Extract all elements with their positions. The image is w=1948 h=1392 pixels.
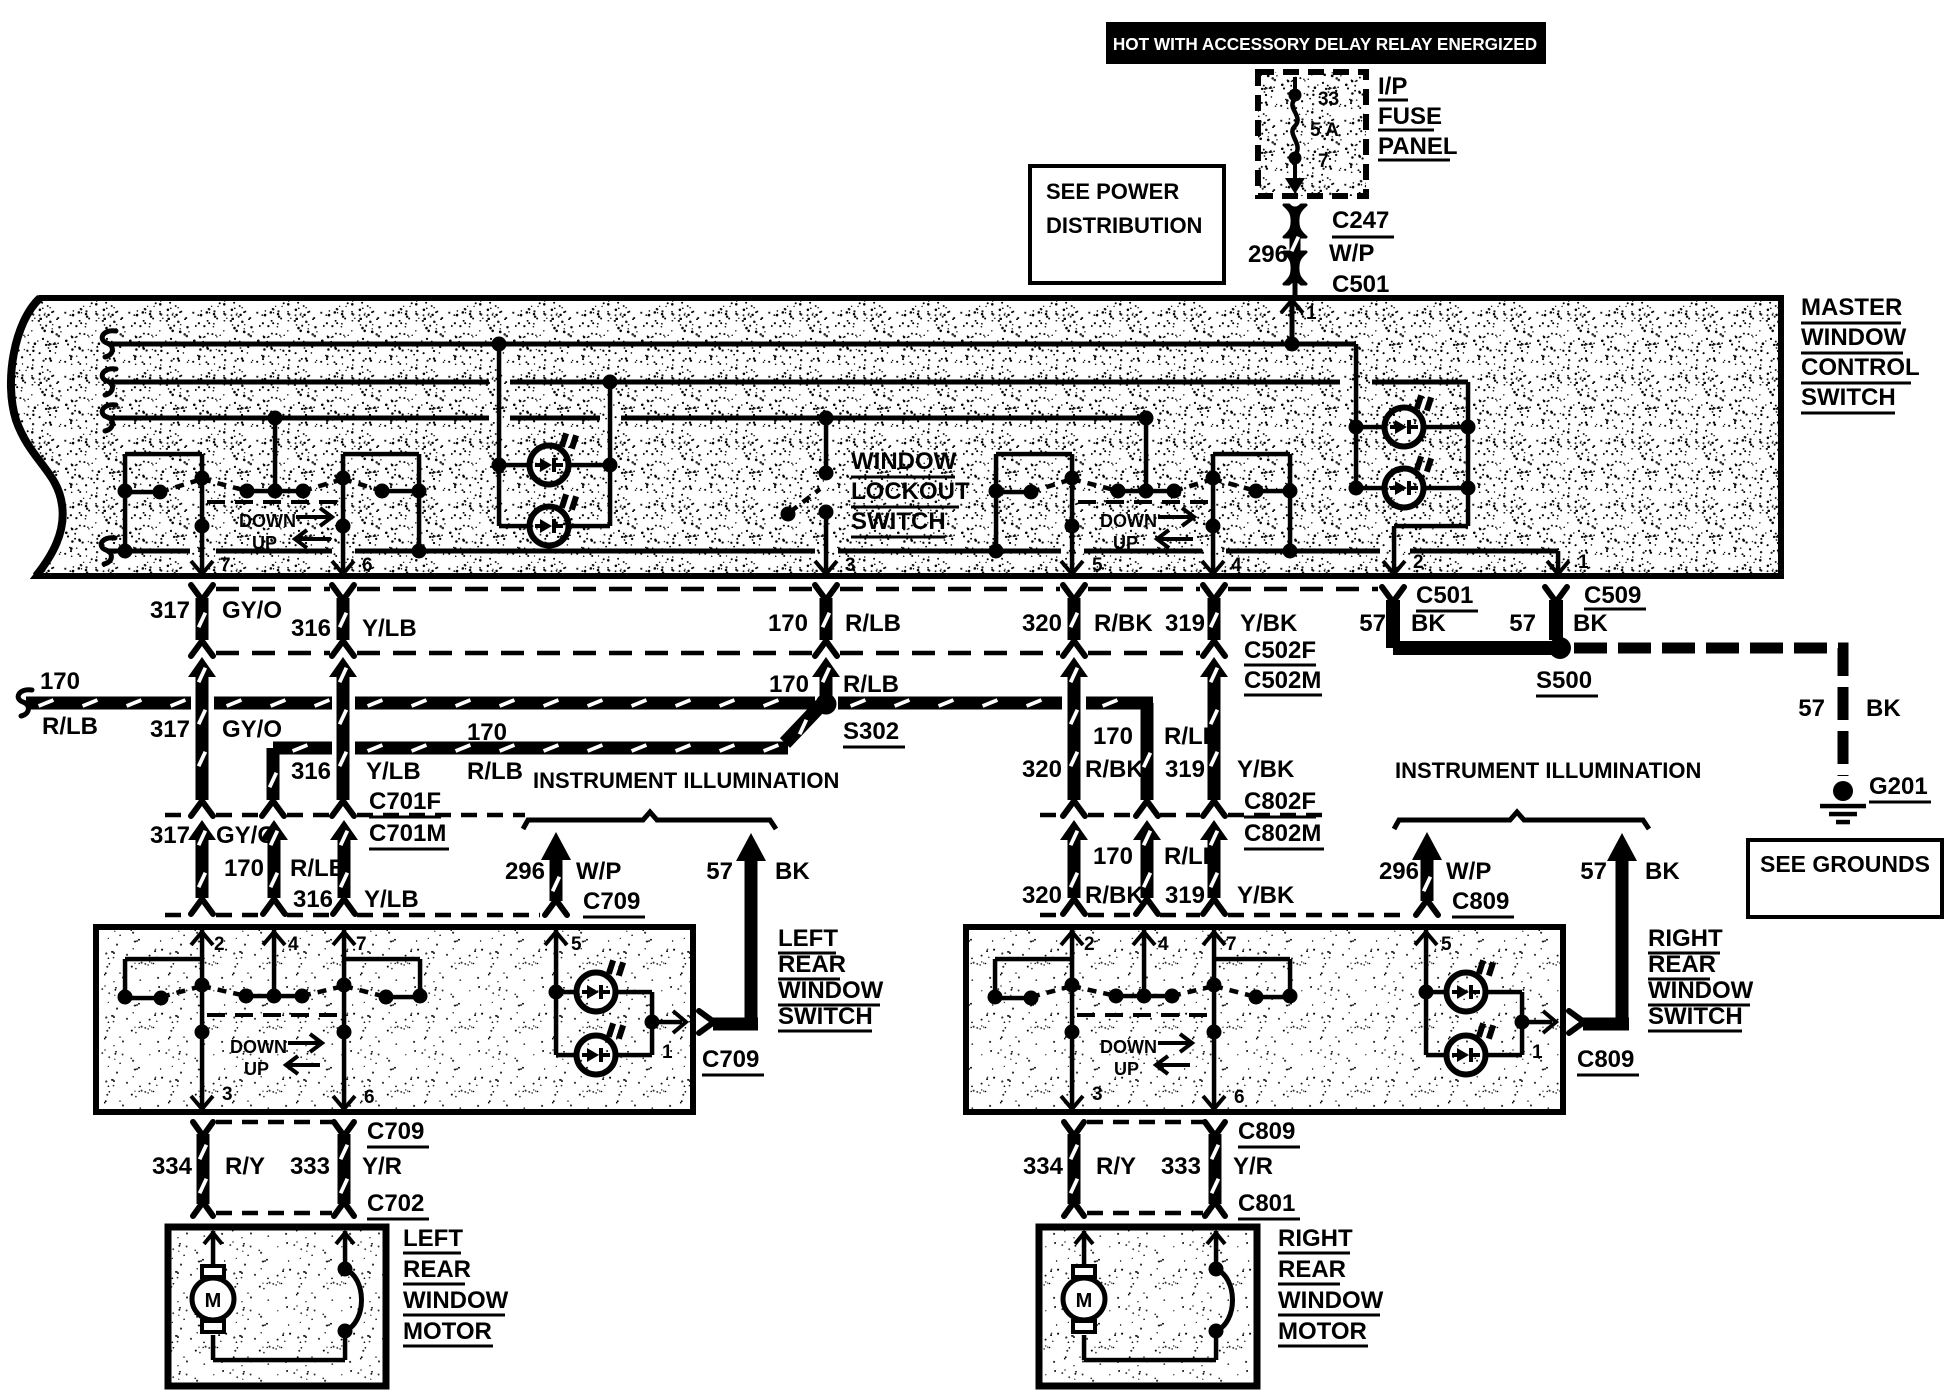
svg-text:BK: BK	[1866, 695, 1901, 722]
I/P fuse panel box	[1258, 72, 1366, 196]
left switch center contact bar	[246, 994, 302, 999]
svg-text:57: 57	[1798, 695, 1825, 722]
svg-text:320: 320	[1022, 882, 1062, 909]
left motor M	[202, 1266, 224, 1277]
svg-text:6: 6	[364, 1087, 375, 1108]
wire 319 Y/BK band1 to C802	[1200, 657, 1228, 677]
svg-text:4: 4	[1158, 934, 1169, 955]
left motor left lead	[211, 1231, 216, 1268]
svg-text:DOWN: DOWN	[239, 511, 296, 531]
left switch contact frame A	[125, 957, 202, 962]
svg-text:R/LB: R/LB	[467, 758, 523, 785]
master right-rear rocker switch contact frame B	[1213, 452, 1290, 457]
left motor bottom wire	[211, 1335, 216, 1360]
right motor M	[1073, 1266, 1095, 1277]
master left-rear rocker switch contact frame A	[125, 452, 202, 457]
ground arrow 57 BK right	[1607, 833, 1637, 861]
left switch pin 1 exit wire	[652, 1020, 682, 1025]
svg-text:FUSE: FUSE	[1378, 103, 1442, 130]
svg-text:UP: UP	[252, 533, 277, 553]
svg-text:W/P: W/P	[1329, 240, 1374, 267]
master left-rear rocker switch pin 6 wire	[341, 454, 346, 574]
svg-text:DOWN: DOWN	[1100, 1037, 1157, 1057]
svg-text:REAR: REAR	[778, 951, 846, 978]
connector C701F/C701M dashed line	[165, 813, 190, 818]
bus wire B+ (top bus)	[102, 331, 116, 357]
svg-text:5: 5	[1441, 934, 1452, 955]
right switch pin 5 lamp wire	[1424, 930, 1429, 1055]
svg-text:C709: C709	[583, 888, 640, 915]
svg-text:7: 7	[220, 555, 231, 576]
svg-text:C809: C809	[1577, 1046, 1634, 1073]
svg-text:317: 317	[150, 597, 190, 624]
right switch contact frame B	[1214, 957, 1290, 962]
svg-text:1: 1	[662, 1042, 673, 1063]
wire 170 R/LB C802 to C809	[1133, 820, 1161, 840]
wire 170 R/LB corner down to C802	[1141, 703, 1154, 800]
svg-text:320: 320	[1022, 610, 1062, 637]
fuse 33 5A 7 inside fuse panel	[1293, 77, 1297, 94]
wire 319 Y/BK through C501	[1203, 585, 1225, 600]
svg-text:320: 320	[1022, 756, 1062, 783]
svg-text:UP: UP	[1114, 1059, 1139, 1079]
bus wire ground (bottom)	[101, 538, 115, 564]
svg-text:57: 57	[1359, 610, 1386, 637]
svg-text:170: 170	[40, 668, 80, 695]
svg-text:57: 57	[1580, 858, 1607, 885]
svg-text:170: 170	[224, 855, 264, 882]
svg-text:DISTRIBUTION: DISTRIBUTION	[1046, 213, 1202, 238]
svg-text:C709: C709	[367, 1118, 424, 1145]
svg-text:3: 3	[1092, 1084, 1103, 1105]
right switch pin 6 wire	[1212, 985, 1217, 1109]
svg-text:1: 1	[1532, 1042, 1543, 1063]
svg-text:WINDOW: WINDOW	[851, 448, 957, 475]
instrument illumination brace right	[1394, 812, 1649, 829]
svg-text:Y/LB: Y/LB	[362, 615, 417, 642]
ground arrow 57 BK left	[736, 833, 766, 861]
svg-text:RIGHT: RIGHT	[1278, 1225, 1353, 1252]
svg-text:MASTER: MASTER	[1801, 294, 1902, 321]
svg-text:GY/O: GY/O	[222, 597, 282, 624]
wire 320 R/BK band1 to C802	[1060, 657, 1088, 677]
svg-text:UP: UP	[244, 1059, 269, 1079]
svg-text:2: 2	[1084, 934, 1095, 955]
wire 320 R/BK through C501	[1063, 585, 1085, 600]
svg-text:DOWN: DOWN	[1100, 511, 1157, 531]
master left-rear rocker blade (dashed)	[160, 479, 202, 492]
right switch pin 1 exit wire	[1522, 1020, 1552, 1025]
svg-text:170: 170	[768, 610, 808, 637]
left switch pin 7 wire	[342, 930, 347, 985]
instrument illumination arrow 296 W/P left	[541, 832, 571, 860]
svg-text:33: 33	[1318, 89, 1339, 110]
connector C802F/C802M dashed line	[1040, 813, 1062, 818]
svg-text:170: 170	[769, 671, 809, 698]
svg-text:BK: BK	[1645, 858, 1680, 885]
ground G201	[1833, 781, 1853, 801]
svg-text:2: 2	[214, 934, 225, 955]
left switch pin 5 lamp wire	[554, 930, 559, 1055]
svg-text:334: 334	[1023, 1153, 1064, 1180]
svg-text:HOT WITH ACCESSORY DELAY RELAY: HOT WITH ACCESSORY DELAY RELAY ENERGIZED	[1113, 34, 1537, 54]
right rear window motor box	[1039, 1227, 1257, 1386]
svg-text:317: 317	[150, 716, 190, 743]
splice S302	[816, 694, 837, 715]
svg-text:5: 5	[571, 934, 582, 955]
right switch pin 4 wire	[1142, 930, 1147, 996]
svg-text:BK: BK	[1411, 610, 1446, 637]
master left-rear rocker center contact bar	[273, 418, 278, 491]
right switch travel line	[1077, 1013, 1208, 1017]
master window control switch box	[11, 298, 1781, 576]
right switch rocker blade	[1065, 978, 1080, 993]
left switch rocker blade	[195, 978, 210, 993]
svg-text:I/P: I/P	[1378, 73, 1407, 100]
wire 317 GY/O C701 to C709	[188, 820, 216, 840]
svg-text:C509: C509	[1584, 582, 1641, 609]
svg-text:W/P: W/P	[576, 858, 621, 885]
svg-text:BK: BK	[775, 858, 810, 885]
svg-text:Y/BK: Y/BK	[1240, 610, 1298, 637]
pin 1 feed wire from C501	[1290, 300, 1295, 344]
svg-text:C709: C709	[702, 1046, 759, 1073]
svg-text:317: 317	[150, 822, 190, 849]
svg-text:R/LB: R/LB	[845, 610, 901, 637]
svg-text:Y/BK: Y/BK	[1237, 756, 1295, 783]
bus wire 3rd (switch feed)	[102, 405, 116, 431]
window lockout switch	[824, 418, 829, 473]
connector C709 dashed line	[165, 913, 190, 918]
svg-text:SEE GROUNDS: SEE GROUNDS	[1760, 851, 1930, 877]
right switch pin 2 wire	[1070, 930, 1075, 985]
svg-text:7: 7	[1318, 151, 1329, 172]
right motor circuit breaker	[1214, 1231, 1219, 1269]
svg-text:WINDOW: WINDOW	[1648, 977, 1754, 1004]
57 BK dashed wire to ground	[1574, 648, 1843, 776]
svg-text:296: 296	[505, 858, 545, 885]
master left-rear rocker switch pin 7 wire	[200, 454, 205, 574]
svg-text:Y/BK: Y/BK	[1237, 882, 1295, 909]
svg-text:296: 296	[1379, 858, 1419, 885]
left switch pin 4 wire	[272, 930, 277, 996]
connector C247	[1284, 205, 1306, 220]
left rear window motor box	[168, 1227, 386, 1386]
right switch pin 7 wire	[1212, 930, 1217, 985]
svg-text:334: 334	[152, 1153, 193, 1180]
svg-text:W/P: W/P	[1446, 858, 1491, 885]
wire 170 R/LB through C501	[815, 585, 837, 600]
svg-text:R/Y: R/Y	[1096, 1153, 1136, 1180]
svg-text:SWITCH: SWITCH	[778, 1003, 873, 1030]
wire 170 R/LB C701 to C709	[260, 820, 288, 840]
master right-rear rocker blade (dashed)	[1031, 479, 1072, 492]
wire 320 R/BK C802 to C809	[1060, 820, 1088, 840]
wire 317 GY/O through C501	[191, 585, 213, 600]
svg-text:3: 3	[222, 1084, 233, 1105]
left switch travel line	[207, 1013, 338, 1017]
wire 316 Y/LB band1 to C701	[329, 657, 357, 677]
svg-text:WINDOW: WINDOW	[1801, 324, 1907, 351]
left switch contact frame B	[344, 957, 420, 962]
svg-text:319: 319	[1165, 882, 1205, 909]
svg-text:3: 3	[845, 555, 856, 576]
svg-text:C701F: C701F	[369, 788, 441, 815]
svg-text:57: 57	[1509, 610, 1536, 637]
hot-with-accessory-delay-relay-energized banner	[1106, 22, 1546, 64]
right switch pin 3 wire	[1070, 985, 1075, 1109]
svg-text:170: 170	[1093, 723, 1133, 750]
svg-text:57: 57	[706, 858, 733, 885]
svg-text:SWITCH: SWITCH	[1801, 384, 1896, 411]
connector C809 dashed line	[1040, 913, 1062, 918]
svg-text:C502F: C502F	[1244, 637, 1316, 664]
svg-text:Y/LB: Y/LB	[364, 886, 419, 913]
connector C501 chevron and 57 BK wire	[1382, 587, 1404, 602]
master switch pin 1 ground exit	[1556, 551, 1561, 574]
connector C809/C801 wires 334 R/Y, 333 Y/R	[1064, 1122, 1084, 1136]
master right-rear rocker switch contact frame A	[996, 452, 1072, 457]
svg-text:Y/R: Y/R	[362, 1153, 402, 1180]
svg-text:S302: S302	[843, 718, 899, 745]
svg-text:7: 7	[1226, 934, 1237, 955]
svg-text:C809: C809	[1452, 888, 1509, 915]
svg-text:333: 333	[290, 1153, 330, 1180]
master right-rear rocker center contact bar	[1144, 418, 1149, 491]
master right-rear rocker switch pin 4 wire	[1211, 454, 1216, 574]
svg-text:C701M: C701M	[369, 820, 446, 847]
connector C501 top	[1284, 252, 1306, 267]
svg-text:WINDOW: WINDOW	[778, 977, 884, 1004]
svg-text:319: 319	[1165, 610, 1205, 637]
svg-text:SWITCH: SWITCH	[1648, 1003, 1743, 1030]
right motor left lead	[1082, 1231, 1087, 1268]
wire 170 R/LB lockout to splice S302	[812, 657, 840, 677]
SEE GROUNDS box	[1748, 840, 1942, 917]
wire 316 Y/LB C701 to C709	[330, 820, 358, 840]
svg-text:316: 316	[291, 758, 331, 785]
master switch illumination lamps right pair	[1354, 344, 1359, 488]
svg-text:1: 1	[1578, 552, 1589, 573]
wire 319 Y/BK C802 to C809	[1200, 820, 1228, 840]
svg-text:C809: C809	[1238, 1118, 1295, 1145]
master right-rear rocker travel line	[1078, 500, 1208, 504]
svg-text:C802M: C802M	[1244, 820, 1321, 847]
svg-text:REAR: REAR	[1648, 951, 1716, 978]
wire 296 W/P fuse to master switch	[1290, 234, 1301, 254]
svg-text:R/BK: R/BK	[1085, 882, 1144, 909]
SEE POWER DISTRIBUTION box	[1030, 166, 1224, 283]
svg-text:319: 319	[1165, 756, 1205, 783]
svg-text:170: 170	[467, 719, 507, 746]
master left-rear rocker travel line	[207, 500, 340, 504]
svg-text:316: 316	[293, 886, 333, 913]
master switch pin 2 wire	[1394, 524, 1468, 529]
svg-text:6: 6	[362, 555, 373, 576]
wire 317 GY/O band1 to C701	[188, 657, 216, 677]
svg-text:SEE POWER: SEE POWER	[1046, 179, 1179, 204]
connector C509 chevron and 57 BK wire	[1545, 587, 1567, 602]
connector C709/C702 wires 334 R/Y, 333 Y/R	[193, 1122, 213, 1136]
svg-text:7: 7	[356, 934, 367, 955]
instrument illumination brace left	[523, 812, 776, 829]
splice S500	[1549, 637, 1571, 659]
svg-text:296: 296	[1248, 241, 1288, 268]
svg-text:REAR: REAR	[403, 1256, 471, 1283]
svg-text:M: M	[205, 1290, 222, 1312]
master switch illumination lamps left pair	[497, 344, 502, 526]
svg-text:M: M	[1076, 1290, 1093, 1312]
svg-text:C802F: C802F	[1244, 788, 1316, 815]
svg-text:LOCKOUT: LOCKOUT	[851, 478, 970, 505]
svg-text:R/LB: R/LB	[843, 671, 899, 698]
svg-text:INSTRUMENT ILLUMINATION: INSTRUMENT ILLUMINATION	[1395, 758, 1701, 783]
right switch contact frame A	[995, 957, 1072, 962]
svg-text:R/LB: R/LB	[42, 713, 98, 740]
svg-text:BK: BK	[1573, 610, 1608, 637]
bus wire 2nd	[102, 369, 116, 395]
svg-text:GY/O: GY/O	[222, 716, 282, 743]
left switch C709 exit chevron + 57 BK wire	[699, 1011, 714, 1033]
left switch pin 3 wire	[200, 985, 205, 1109]
left rear window switch box	[96, 927, 693, 1112]
right switch illumination lamps	[1426, 990, 1446, 995]
svg-text:WINDOW: WINDOW	[1278, 1287, 1384, 1314]
left motor circuit breaker	[343, 1231, 348, 1269]
svg-text:333: 333	[1161, 1153, 1201, 1180]
svg-text:5: 5	[1092, 555, 1103, 576]
svg-text:C501: C501	[1416, 582, 1473, 609]
left switch pin 2 wire	[200, 930, 205, 985]
svg-text:170: 170	[1093, 843, 1133, 870]
svg-text:MOTOR: MOTOR	[1278, 1318, 1367, 1345]
svg-text:4: 4	[1231, 555, 1242, 576]
right motor bottom wire	[1082, 1335, 1087, 1360]
wire 316 Y/LB through C501	[332, 585, 354, 600]
master left-rear rocker switch contact frame B	[343, 452, 419, 457]
svg-text:REAR: REAR	[1278, 1256, 1346, 1283]
svg-text:2: 2	[1413, 552, 1424, 573]
svg-text:R/BK: R/BK	[1085, 756, 1144, 783]
svg-text:C702: C702	[367, 1190, 424, 1217]
svg-text:PANEL: PANEL	[1378, 133, 1458, 160]
svg-text:UP: UP	[1113, 533, 1138, 553]
svg-text:4: 4	[288, 934, 299, 955]
svg-text:S500: S500	[1536, 667, 1592, 694]
svg-text:CONTROL: CONTROL	[1801, 354, 1920, 381]
master right-rear rocker switch pin 5 wire	[1070, 454, 1075, 574]
svg-text:R/BK: R/BK	[1094, 610, 1153, 637]
svg-text:Y/LB: Y/LB	[366, 758, 421, 785]
svg-text:Y/R: Y/R	[1233, 1153, 1273, 1180]
svg-text:WINDOW: WINDOW	[403, 1287, 509, 1314]
svg-text:G201: G201	[1869, 773, 1928, 800]
svg-text:C501: C501	[1332, 271, 1389, 298]
svg-text:C502M: C502M	[1244, 667, 1321, 694]
svg-text:C801: C801	[1238, 1190, 1295, 1217]
left switch pin 6 wire	[342, 985, 347, 1109]
right switch C809 exit chevron + 57 BK wire	[1569, 1011, 1584, 1033]
svg-text:MOTOR: MOTOR	[403, 1318, 492, 1345]
right rear window switch box	[966, 927, 1563, 1112]
svg-text:RIGHT: RIGHT	[1648, 925, 1723, 952]
svg-text:R/Y: R/Y	[225, 1153, 265, 1180]
main wire 170 R/LB horizontal	[18, 690, 32, 716]
right switch center contact bar	[1116, 994, 1172, 999]
svg-text:6: 6	[1234, 1087, 1245, 1108]
branch wire 170 R/LB to C701	[785, 705, 821, 743]
left switch illumination lamps	[556, 990, 576, 995]
svg-text:DOWN: DOWN	[230, 1037, 287, 1057]
svg-text:1: 1	[1306, 303, 1317, 324]
svg-text:INSTRUMENT ILLUMINATION: INSTRUMENT ILLUMINATION	[533, 768, 839, 793]
svg-text:5 A: 5 A	[1310, 120, 1339, 141]
svg-text:316: 316	[291, 615, 331, 642]
svg-text:SWITCH: SWITCH	[851, 508, 946, 535]
instrument illumination arrow 296 W/P right	[1412, 832, 1442, 860]
svg-text:LEFT: LEFT	[778, 925, 838, 952]
svg-text:LEFT: LEFT	[403, 1225, 463, 1252]
connector band C501 dashed lines	[216, 587, 330, 592]
svg-text:C247: C247	[1332, 207, 1389, 234]
